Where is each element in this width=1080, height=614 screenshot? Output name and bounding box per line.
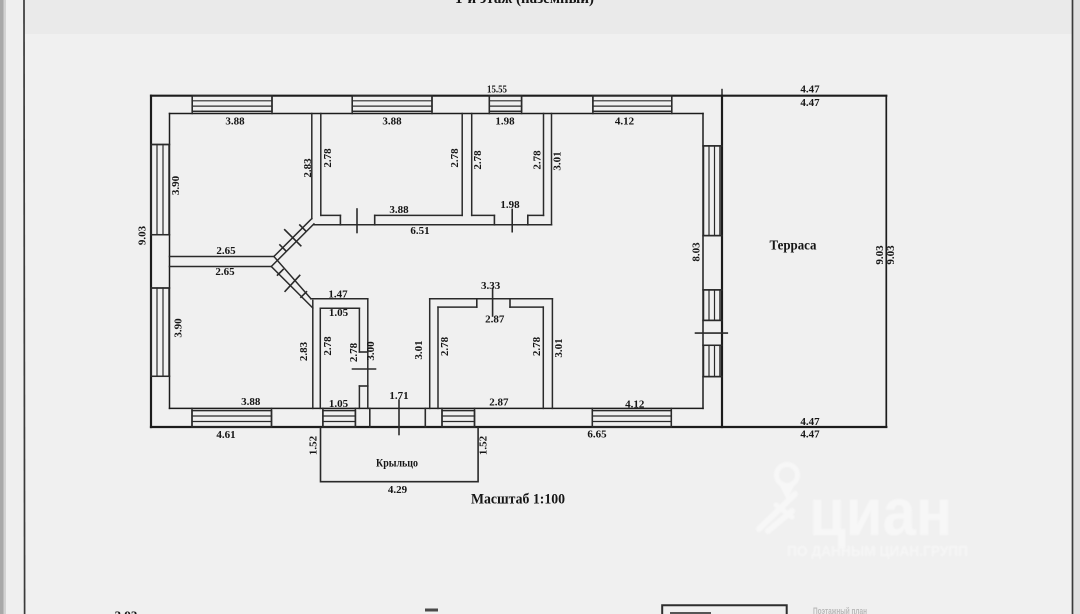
bottom cut legend smudge — [670, 612, 711, 614]
svg-text:3.01: 3.01 — [552, 151, 564, 170]
svg-text:2.78: 2.78 — [439, 336, 451, 356]
svg-text:1.52: 1.52 — [308, 435, 320, 455]
svg-text:3.01: 3.01 — [413, 340, 425, 359]
left vertical rule — [23, 0, 26, 614]
door room2 leaf — [356, 209, 358, 233]
door room287 jamb right — [509, 299, 511, 307]
window W6 left wall — [151, 288, 169, 376]
entrance door jamb left — [369, 408, 371, 427]
top darker band — [0, 0, 1080, 34]
svg-text:3.33: 3.33 — [481, 280, 501, 292]
inner face left wall — [169, 114, 171, 409]
svg-text:3.90: 3.90 — [170, 175, 182, 195]
svg-text:3.88: 3.88 — [389, 204, 409, 216]
legend box bottom — [662, 605, 787, 614]
bottom cut small mark — [425, 609, 438, 612]
wall rooms1-2 line b — [320, 114, 322, 216]
window W13 right wall — [704, 345, 721, 376]
wall between left rooms line a — [170, 256, 274, 258]
entrance door jamb right — [424, 408, 426, 427]
svg-text:2.78: 2.78 — [348, 342, 360, 362]
svg-text:2.78: 2.78 — [531, 336, 543, 356]
svg-text:2.83: 2.83 — [302, 158, 314, 178]
svg-text:4.12: 4.12 — [615, 116, 635, 128]
svg-text:1.05: 1.05 — [329, 307, 349, 319]
diagonal wall D3 — [271, 267, 313, 309]
outer wall top (house + terrace) — [151, 95, 886, 97]
window W7 bottom wall — [192, 411, 272, 427]
room287 right wall line b — [551, 299, 553, 409]
watermark group — [759, 465, 968, 561]
svg-text:2.78: 2.78 — [532, 150, 544, 170]
svg-text:1.05: 1.05 — [329, 398, 349, 410]
window W4 top wall — [593, 96, 672, 112]
window W12 right wall — [704, 290, 721, 321]
window W8 bottom wall — [323, 411, 356, 427]
room287 right wall line a — [542, 307, 544, 408]
svg-text:6.65: 6.65 — [587, 428, 607, 440]
svg-text:2.87: 2.87 — [485, 314, 505, 326]
svg-text:Терраса: Терраса — [770, 239, 817, 254]
door small room jamb bottom — [359, 385, 367, 387]
door room2 jamb left — [339, 215, 341, 224]
svg-text:2.78: 2.78 — [449, 148, 461, 168]
svg-text:4.47: 4.47 — [800, 84, 820, 96]
door lower-diagonal jamb a — [278, 270, 284, 276]
svg-text:1.98: 1.98 — [495, 116, 515, 128]
svg-text:8.03: 8.03 — [691, 242, 703, 262]
right wall door leaf — [696, 332, 728, 334]
door room2 jamb right — [374, 215, 376, 224]
svg-text:3.01: 3.01 — [553, 338, 565, 357]
small room top inner wall — [320, 307, 359, 309]
wall rooms2-3 line a — [461, 114, 463, 216]
diagonal wall D1 — [274, 219, 312, 257]
terrace right wall — [885, 96, 887, 427]
svg-text:2.87: 2.87 — [489, 397, 509, 409]
svg-text:1.52: 1.52 — [478, 435, 490, 455]
door upper-diagonal jamb a — [280, 245, 286, 251]
window W2 top wall — [352, 96, 432, 112]
svg-text:4.29: 4.29 — [388, 484, 408, 496]
svg-text:ПО ДАННЫМ ЦИАН.ГРУПП: ПО ДАННЫМ ЦИАН.ГРУПП — [787, 543, 968, 560]
svg-text:2.78: 2.78 — [322, 336, 334, 356]
svg-text:2.78: 2.78 — [472, 150, 484, 170]
small room right wall line a (door gap) — [358, 308, 360, 408]
svg-text:3.93: 3.93 — [115, 608, 138, 614]
hall top wall outer line — [314, 224, 552, 226]
door room3 jamb left — [493, 215, 495, 224]
wall rooms2-3 line b — [471, 114, 473, 216]
door lower-diagonal leaf — [285, 275, 300, 291]
dimension tick at house-terrace boundary — [721, 90, 723, 96]
small room right wall line b — [367, 299, 369, 409]
watermark icon pin tail — [779, 484, 795, 500]
svg-text:3.88: 3.88 — [382, 116, 402, 128]
watermark icon runner stroke c — [776, 505, 792, 517]
svg-text:4.47: 4.47 — [800, 97, 820, 109]
outer wall left — [150, 96, 152, 427]
svg-text:4.12: 4.12 — [625, 399, 645, 411]
watermark icon pin circle — [777, 465, 798, 486]
entrance door leaf — [398, 400, 400, 435]
svg-text:2.65: 2.65 — [216, 245, 236, 257]
room287 top inner wall (door gap) — [438, 306, 543, 308]
door lower-diagonal jamb b — [301, 292, 307, 298]
porch outline — [321, 427, 479, 482]
svg-text:циан: циан — [809, 475, 952, 550]
diagonal wall D4 — [274, 257, 311, 299]
svg-text:4.61: 4.61 — [216, 429, 235, 441]
door room287 leaf — [492, 288, 494, 316]
door room3 leaf — [511, 209, 513, 231]
outer wall bottom (house + terrace) — [151, 426, 886, 428]
door small room leaf — [353, 368, 376, 370]
svg-text:9.03: 9.03 — [885, 245, 897, 265]
door small room jamb top — [359, 351, 367, 353]
inner face bottom wall — [170, 407, 704, 409]
svg-text:1.47: 1.47 — [328, 289, 348, 301]
wall rooms1-2 line a — [311, 114, 313, 219]
svg-text:Крыльцо: Крыльцо — [376, 458, 418, 470]
hall top wall inner line segments (with door gaps) — [321, 214, 544, 216]
window W10 bottom wall — [592, 411, 671, 427]
door room3 jamb right — [527, 215, 529, 224]
svg-text:4.47: 4.47 — [800, 416, 820, 428]
left page edge shading — [0, 0, 4, 614]
watermark icon runner stroke b — [768, 511, 792, 531]
right page edge shading — [1074, 0, 1080, 614]
inner face right wall — [702, 114, 704, 409]
svg-text:3.90: 3.90 — [172, 318, 184, 338]
svg-text:1.98: 1.98 — [500, 199, 520, 211]
wall hall-bottomleftroom line a — [312, 301, 314, 409]
door room287 jamb left — [476, 299, 478, 307]
door upper-diagonal leaf — [285, 230, 301, 246]
svg-text:3.00: 3.00 — [365, 341, 377, 361]
window W9 bottom wall — [442, 411, 475, 427]
svg-text:2.83: 2.83 — [298, 341, 310, 361]
window cap lines spanning full wall depth — [192, 96, 672, 114]
room287 left wall line b — [437, 307, 439, 408]
svg-text:15.55: 15.55 — [487, 84, 507, 96]
svg-text:2.65: 2.65 — [215, 266, 235, 278]
inner face top wall — [170, 113, 704, 115]
svg-text:1-й этаж (наземный): 1-й этаж (наземный) — [455, 0, 594, 7]
svg-text:4.47: 4.47 — [800, 429, 820, 441]
wall between left rooms line b — [170, 266, 272, 268]
right vertical rule — [1072, 0, 1074, 614]
door upper-diagonal jamb b — [300, 225, 306, 231]
small room top outer wall — [311, 298, 368, 300]
room287 left wall line a — [429, 299, 431, 409]
window W3 top wall — [489, 96, 521, 112]
window W5 left wall — [151, 145, 169, 235]
wall hall-bottomleftroom line b — [319, 308, 321, 408]
outer wall right of house — [721, 96, 723, 427]
window W1 top wall — [192, 96, 272, 112]
wall rooms3-4 line b — [551, 114, 553, 225]
diagonal wall D2 — [271, 224, 314, 267]
room287 top outer wall — [430, 298, 553, 300]
svg-text:Масштаб 1:100: Масштаб 1:100 — [471, 492, 565, 508]
watermark icon runner stroke a — [759, 494, 795, 529]
window W11 right wall — [704, 146, 721, 236]
svg-text:6.51: 6.51 — [410, 225, 429, 237]
svg-text:3.88: 3.88 — [241, 396, 261, 408]
svg-text:2.78: 2.78 — [322, 148, 334, 168]
svg-text:3.88: 3.88 — [225, 116, 245, 128]
wall rooms3-4 line a — [543, 114, 545, 216]
svg-text:Поэтажный план: Поэтажный план — [813, 606, 867, 614]
svg-text:1.71: 1.71 — [389, 390, 408, 402]
svg-text:9.03: 9.03 — [137, 225, 149, 245]
